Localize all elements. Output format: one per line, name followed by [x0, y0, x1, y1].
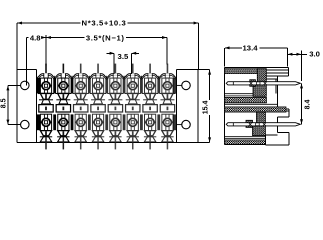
terminal cell 8: [159, 64, 175, 150]
mounting hole top-right: [182, 81, 191, 90]
mounting hole bottom-right: [182, 120, 191, 129]
deck divider lines: [225, 94, 278, 139]
hatched band top: [225, 69, 258, 74]
hatched band mid-lower: [225, 107, 287, 112]
svg-text:N*3.5+10.3: N*3.5+10.3: [82, 18, 127, 27]
dimension N*3.5+10.3: [17, 23, 199, 70]
pin upper (side view): [226, 82, 300, 85]
dimension 8.5: [8, 85, 21, 124]
front view outer frame: [17, 70, 210, 143]
svg-text:3.5*(N−1): 3.5*(N−1): [86, 34, 125, 43]
terminal cell 7: [142, 64, 158, 150]
svg-text:3.5: 3.5: [118, 52, 129, 61]
svg-text:3.0: 3.0: [309, 50, 320, 59]
svg-text:8.4: 8.4: [304, 100, 311, 110]
dimension 3.5*(N-1): [46, 38, 167, 65]
terminal cell 6: [125, 64, 141, 150]
clamp slab lower: [253, 112, 266, 136]
dimension 3.5: [107, 53, 140, 74]
hatched band bottom: [225, 140, 266, 144]
terminal cell 3: [73, 64, 89, 150]
svg-text:13.4: 13.4: [243, 43, 259, 52]
hatched band mid-upper: [225, 97, 267, 103]
clamp slab upper: [253, 69, 266, 97]
wavy housing top edge: [37, 74, 177, 78]
terminal cell 1: [38, 64, 54, 150]
side view body outline: [225, 67, 289, 145]
svg-text:8.5: 8.5: [1, 98, 8, 108]
terminal cell 4: [90, 64, 106, 150]
svg-text:15.4: 15.4: [203, 100, 210, 114]
cell partition walls: [37, 78, 176, 130]
dimension 4.8: [27, 35, 46, 86]
dimension 15.4: [198, 70, 210, 143]
mounting hole bottom-left: [21, 120, 30, 129]
terminal cell 2: [55, 64, 71, 150]
terminal cell 5: [107, 64, 123, 150]
dimension 13.4: [225, 48, 288, 67]
dimension 3.0: [287, 50, 306, 81]
dimension 8.4: [301, 83, 303, 124]
svg-text:4.8: 4.8: [30, 34, 41, 43]
rim dip ticks: [55, 76, 159, 78]
pin lower (side view): [226, 123, 300, 126]
mounting hole top-left: [21, 81, 30, 90]
